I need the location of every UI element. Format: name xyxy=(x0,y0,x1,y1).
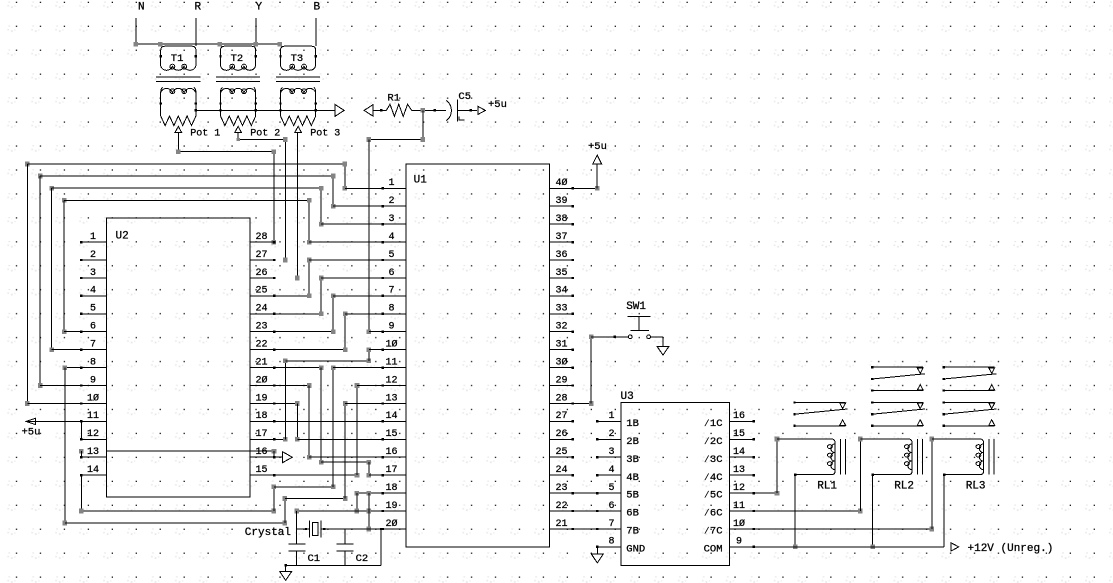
U3 pin 16 xyxy=(704,411,755,430)
U2 pin 28 xyxy=(250,232,275,243)
U2 pin 17 xyxy=(250,429,275,440)
power +5v to U2 pin 11 and 12 xyxy=(22,418,107,439)
wire U3 to relay RL3 xyxy=(730,437,980,532)
capacitor C2 xyxy=(336,529,368,565)
svg-text:31: 31 xyxy=(555,340,567,351)
U1 pin 2 xyxy=(382,196,406,207)
svg-text:1Ø: 1Ø xyxy=(733,518,745,530)
U3 pin 8 xyxy=(596,537,645,556)
ground at crystal xyxy=(280,564,381,580)
svg-text:17: 17 xyxy=(255,429,267,440)
svg-text:6B: 6B xyxy=(626,508,639,520)
svg-text:4: 4 xyxy=(608,465,614,476)
resistor R1 xyxy=(373,104,446,116)
U2 pin 26 xyxy=(250,268,275,279)
U2 pin 5 xyxy=(80,304,106,315)
svg-text:8: 8 xyxy=(388,304,394,315)
relay RL1 contact set lower xyxy=(794,401,848,427)
wire U2 pin 8 to U1 pin 13 (wrap) xyxy=(63,365,407,525)
wire U2 pin 19 to U1 pin 15 xyxy=(274,401,406,441)
U1 pin 11 xyxy=(382,357,406,368)
connector arrow R1 input xyxy=(364,105,373,117)
svg-text:35: 35 xyxy=(555,268,567,279)
svg-text:Crystal: Crystal xyxy=(245,527,291,539)
U1 pin 25 xyxy=(550,447,575,458)
svg-text:RL3: RL3 xyxy=(966,481,986,493)
U3 pin 9 xyxy=(704,537,755,556)
svg-text:6: 6 xyxy=(608,501,614,512)
svg-text:7: 7 xyxy=(90,340,96,351)
svg-text:5: 5 xyxy=(90,304,96,315)
svg-text:⁄1C: ⁄1C xyxy=(704,418,723,430)
U1 pin 4 xyxy=(382,232,406,243)
U1 pin 35 xyxy=(550,268,575,279)
transformer T2 xyxy=(216,46,260,125)
svg-text:6: 6 xyxy=(388,268,394,279)
svg-text:25: 25 xyxy=(555,447,567,458)
svg-text:12: 12 xyxy=(733,483,745,494)
U2 pin 20 xyxy=(250,374,275,386)
U3 pin 4 xyxy=(596,465,639,484)
svg-text:37: 37 xyxy=(555,232,567,243)
svg-text:Y: Y xyxy=(256,2,263,14)
svg-text:T3: T3 xyxy=(291,53,304,65)
svg-text:15: 15 xyxy=(255,465,267,476)
U1 pin 24 xyxy=(550,465,575,476)
wire U1 pin 19 to crystal xyxy=(294,493,406,531)
U2 pin 25 xyxy=(250,286,275,297)
U3 pin 2 xyxy=(596,429,639,448)
svg-text:23: 23 xyxy=(255,322,267,333)
svg-text:T1: T1 xyxy=(171,53,184,65)
svg-text:18: 18 xyxy=(385,483,397,494)
U1 pin 9 xyxy=(382,322,406,333)
svg-text:16: 16 xyxy=(733,411,745,422)
svg-text:+5u: +5u xyxy=(22,427,41,439)
svg-text:19: 19 xyxy=(255,393,267,404)
U1 pin 18 xyxy=(382,483,406,494)
U2 pin 19 xyxy=(250,393,275,404)
wire primary common rail xyxy=(134,42,283,47)
capacitor C5 xyxy=(446,100,477,122)
svg-text:27: 27 xyxy=(555,411,567,422)
Pot 1 wiper arrow xyxy=(175,126,182,132)
U1 pin 38 xyxy=(550,214,575,225)
U3 pin 1 xyxy=(596,411,639,430)
U1 pin 1 xyxy=(382,178,406,189)
svg-text:5B: 5B xyxy=(626,490,639,502)
wire R1 node to U1 pin 9 xyxy=(367,108,426,334)
svg-text:11: 11 xyxy=(87,411,99,422)
relay RL3 coil xyxy=(966,439,994,493)
svg-text:24: 24 xyxy=(555,465,567,476)
wire U2 pin 17 to U1 pin 10 xyxy=(274,347,406,441)
U2 pin 14 xyxy=(80,465,106,476)
U2 pin 9 xyxy=(80,375,106,386)
svg-text:36: 36 xyxy=(555,250,567,261)
U2 pin 4 xyxy=(80,286,106,297)
U1 pin 29 xyxy=(550,375,575,386)
IC U3 body xyxy=(621,403,730,566)
U3 pin 11 xyxy=(704,501,755,520)
svg-text:RL1: RL1 xyxy=(817,481,837,493)
wire U2 pin 21 to U1 pin 17 xyxy=(274,365,406,477)
svg-text:1: 1 xyxy=(388,178,394,189)
U1 pin 36 xyxy=(550,250,575,261)
svg-text:RL2: RL2 xyxy=(894,481,914,493)
svg-text:C2: C2 xyxy=(356,553,369,565)
Pot 2 wiper arrow xyxy=(235,126,242,132)
U3 pin 10 xyxy=(704,518,755,538)
svg-text:2Ø: 2Ø xyxy=(255,374,267,386)
U2 pin 13 xyxy=(80,447,106,458)
node Y wire xyxy=(255,18,257,46)
U3 pin 7 xyxy=(596,519,639,538)
U2 pin 3 xyxy=(80,268,106,279)
svg-text:24: 24 xyxy=(255,304,267,315)
U1 pin 30 xyxy=(550,356,575,368)
switch SW1 xyxy=(626,301,651,339)
svg-text:28: 28 xyxy=(255,232,267,243)
wire relay RL2 to +12V rail xyxy=(870,474,908,550)
svg-text:Pot 1: Pot 1 xyxy=(190,128,220,139)
U2 pin 8 xyxy=(80,357,106,368)
svg-text:19: 19 xyxy=(385,501,397,512)
svg-text:15: 15 xyxy=(385,429,397,440)
U1 pin 10 xyxy=(382,339,406,351)
svg-text:Pot 2: Pot 2 xyxy=(250,128,280,139)
svg-text:26: 26 xyxy=(255,268,267,279)
U1 pin 34 xyxy=(550,286,575,297)
U3 pin 3 xyxy=(596,447,639,466)
svg-text:11: 11 xyxy=(385,357,397,368)
U2 pin 24 xyxy=(250,304,275,315)
ground at U3 pin 8 xyxy=(591,547,603,563)
U1 pin 37 xyxy=(550,232,575,243)
svg-text:8: 8 xyxy=(608,537,614,548)
U3 pin 6 xyxy=(596,501,639,520)
U1 pin 7 xyxy=(382,286,406,297)
U1 pin 14 xyxy=(382,411,406,422)
U2 pin 18 xyxy=(250,411,275,422)
U1 pin 22 xyxy=(550,501,621,512)
U2 pin 27 xyxy=(250,250,275,261)
wire U3 to relay RL1 xyxy=(730,437,832,496)
svg-text:C5: C5 xyxy=(458,91,471,103)
U3 pin 13 xyxy=(704,465,755,484)
wire +12V rail xyxy=(730,546,945,548)
node N wire xyxy=(135,18,137,44)
relay RL2 contact set lower xyxy=(871,401,925,427)
wire U2 pin 22 to U1 pin 8 xyxy=(274,312,406,353)
wire U2 pin 23 to U1 pin 7 xyxy=(274,294,406,334)
U1 pin 27 xyxy=(550,411,575,422)
svg-text:34: 34 xyxy=(555,286,567,297)
U2 pin 11 xyxy=(80,411,106,422)
svg-text:⁄4C: ⁄4C xyxy=(704,472,723,484)
wire U2 pin 15 to U1 pin 12 xyxy=(274,383,406,477)
wire P2 line to U1 pin 2 and U2 pin 9 xyxy=(38,174,406,388)
ground at SW1 xyxy=(651,337,669,355)
svg-text:27: 27 xyxy=(255,250,267,261)
U1 pin 23 xyxy=(550,483,621,494)
wire P4 line to U1 pin 4 and U2 pin 6 xyxy=(62,198,406,334)
svg-text:3: 3 xyxy=(90,268,96,279)
svg-text:R: R xyxy=(195,2,202,14)
U1 pin 31 xyxy=(550,340,575,351)
U1 pin 15 xyxy=(382,429,406,440)
wire P1 line to U1 pin 1 and U2 pin 10 xyxy=(25,162,406,406)
svg-text:14: 14 xyxy=(87,465,99,476)
wire U1 pin 28 to SW1 xyxy=(589,335,628,406)
svg-text:3B: 3B xyxy=(626,454,639,466)
wire Pot2 wiper to U2 pin 27 xyxy=(236,133,287,263)
svg-text:5: 5 xyxy=(608,483,614,494)
svg-text:8: 8 xyxy=(90,357,96,368)
U1 pin 19 xyxy=(382,501,406,512)
svg-text:Pot 3: Pot 3 xyxy=(310,128,340,139)
U1 pin 16 xyxy=(382,447,406,458)
svg-text:38: 38 xyxy=(555,214,567,225)
svg-text:25: 25 xyxy=(255,286,267,297)
svg-text:3Ø: 3Ø xyxy=(555,356,567,368)
svg-text:⁄3C: ⁄3C xyxy=(704,454,723,466)
Pot 3 wiper arrow xyxy=(295,126,302,132)
wire U2 pin 18 to U1 pin 14 xyxy=(274,420,406,422)
U3 pin 14 xyxy=(704,447,755,466)
svg-text:9: 9 xyxy=(90,375,96,386)
svg-text:7: 7 xyxy=(608,519,614,530)
U2 pin 12 xyxy=(80,429,106,440)
svg-text:4Ø: 4Ø xyxy=(555,177,567,189)
svg-text:7: 7 xyxy=(388,286,394,297)
U1 pin 12 xyxy=(382,375,406,386)
svg-text:13: 13 xyxy=(733,465,745,476)
svg-text:18: 18 xyxy=(255,411,267,422)
svg-text:2: 2 xyxy=(608,429,614,440)
svg-text:11: 11 xyxy=(733,501,745,512)
svg-text:GND: GND xyxy=(626,544,645,556)
svg-text:22: 22 xyxy=(555,501,567,512)
wire U3 to relay RL2 xyxy=(730,437,909,514)
svg-text:1Ø: 1Ø xyxy=(87,392,99,404)
svg-text:13: 13 xyxy=(87,447,99,458)
wire relay RL1 to +12V rail xyxy=(793,474,831,550)
U2 pin 2 xyxy=(80,250,106,261)
relay RL3 contact set upper xyxy=(943,366,997,392)
svg-text:21: 21 xyxy=(255,357,267,368)
U2 pin 7 xyxy=(80,340,106,351)
U1 pin 5 xyxy=(382,250,406,261)
svg-text:C1: C1 xyxy=(308,553,321,565)
svg-text:⁄2C: ⁄2C xyxy=(704,436,723,448)
relay RL1 coil xyxy=(817,439,845,493)
wire Pot1 wiper to U2 pin 28 xyxy=(176,133,276,245)
svg-text:2Ø: 2Ø xyxy=(385,518,397,530)
relay RL3 contact set lower xyxy=(943,401,997,427)
relay RL2 contact set upper xyxy=(871,366,925,392)
svg-text:16: 16 xyxy=(385,447,397,458)
svg-text:6: 6 xyxy=(90,322,96,333)
transformer T1 xyxy=(156,46,200,125)
wire U2 pin 20 to U1 pin 16 xyxy=(274,383,406,459)
U1 pin 6 xyxy=(382,268,406,279)
U2 pin 23 xyxy=(250,322,275,333)
svg-text:T2: T2 xyxy=(231,53,244,65)
svg-text:29: 29 xyxy=(555,375,567,386)
wire U2 pin 24 to U1 pin 6 xyxy=(274,276,406,316)
svg-text:4: 4 xyxy=(388,232,394,243)
svg-text:13: 13 xyxy=(385,393,397,404)
U1 pin 40 xyxy=(550,177,598,189)
svg-text:21: 21 xyxy=(555,519,567,530)
U1 pin 33 xyxy=(550,304,575,315)
svg-text:5: 5 xyxy=(388,250,394,261)
svg-text:16: 16 xyxy=(255,447,267,458)
wire relay RL3 to +12V rail xyxy=(943,474,980,547)
svg-text:U3: U3 xyxy=(621,391,634,403)
crystal Y1 xyxy=(245,521,321,540)
transformer T3 xyxy=(276,46,320,125)
svg-text:2B: 2B xyxy=(626,436,639,448)
connector arrow secondary rail xyxy=(335,105,344,117)
svg-text:1: 1 xyxy=(608,411,614,422)
wire U2 pin 13 jog xyxy=(79,449,106,457)
U1 pin 39 xyxy=(550,196,575,207)
power +5v at U1 pin 40 xyxy=(588,141,607,191)
svg-text:+5u: +5u xyxy=(588,141,607,153)
U2 pin 21 xyxy=(250,357,275,368)
U1 pin 3 xyxy=(382,214,406,225)
svg-text:2: 2 xyxy=(388,196,394,207)
U1 pin 32 xyxy=(550,322,575,333)
svg-text:26: 26 xyxy=(555,429,567,440)
svg-text:23: 23 xyxy=(555,483,567,494)
svg-text:⁄5C: ⁄5C xyxy=(704,490,723,502)
svg-text:7B: 7B xyxy=(626,526,639,538)
svg-text:2: 2 xyxy=(90,250,96,261)
svg-text:COM: COM xyxy=(704,544,723,556)
U1 pin 20 xyxy=(382,518,406,530)
wire Pot3 wiper to U2 pin 26 xyxy=(295,133,300,281)
svg-text:3: 3 xyxy=(608,447,614,458)
U2 pin 22 xyxy=(250,340,275,351)
svg-text:4: 4 xyxy=(90,286,96,297)
U2 pin 6 xyxy=(80,322,106,333)
svg-text:12: 12 xyxy=(385,375,397,386)
U2 pin 10 xyxy=(80,392,106,404)
svg-text:⁄7C: ⁄7C xyxy=(704,526,723,538)
U2 pin 1 xyxy=(80,232,106,243)
connector arrow to +5v xyxy=(478,106,486,114)
wire P3 line to U1 pin 3 and U2 pin 7 xyxy=(49,186,406,352)
svg-text:1: 1 xyxy=(90,232,96,243)
svg-text:1B: 1B xyxy=(626,418,639,430)
node R wire xyxy=(195,18,197,46)
capacitor C1 xyxy=(288,544,320,565)
svg-text:3: 3 xyxy=(388,214,394,225)
U1 pin 13 xyxy=(382,393,406,404)
svg-text:28: 28 xyxy=(555,393,567,404)
U3 pin 5 xyxy=(596,483,639,502)
U1 pin 8 xyxy=(382,304,406,315)
wire U2 pin 16 to connector arrow xyxy=(106,449,292,463)
U3 pin 12 xyxy=(704,483,755,502)
U2 pin 16 xyxy=(250,447,275,458)
IC U1 body xyxy=(406,164,550,547)
U3 pin 15 xyxy=(704,429,755,448)
wire secondary common rail xyxy=(195,109,336,111)
svg-text:12: 12 xyxy=(87,429,99,440)
svg-text:9: 9 xyxy=(388,322,394,333)
svg-text:⁄6C: ⁄6C xyxy=(704,508,723,520)
svg-text:R1: R1 xyxy=(387,93,400,105)
U1 pin 17 xyxy=(382,465,406,476)
wire U1 pin 18 to crystal xyxy=(355,491,406,514)
svg-text:B: B xyxy=(314,2,321,14)
relay RL2 coil xyxy=(894,439,922,493)
svg-text:SW1: SW1 xyxy=(626,301,646,313)
svg-text:17: 17 xyxy=(385,465,397,476)
wire crystal row to U1 pin 20 xyxy=(297,511,406,565)
U2 pin 15 xyxy=(250,465,275,476)
svg-text:N: N xyxy=(138,2,145,14)
wire U2 pin 25 to U1 pin 5 xyxy=(274,258,406,299)
svg-text:U2: U2 xyxy=(116,230,129,242)
wire U2 pin 14 to U1 pin 11 (wrap) xyxy=(79,365,406,513)
svg-text:22: 22 xyxy=(255,340,267,351)
svg-text:14: 14 xyxy=(733,447,745,458)
U1 pin 21 xyxy=(550,519,621,530)
svg-text:4B: 4B xyxy=(626,472,639,484)
U1 pin 26 xyxy=(550,429,575,440)
svg-text:15: 15 xyxy=(733,429,745,440)
svg-text:+5u: +5u xyxy=(488,99,507,111)
svg-text:U1: U1 xyxy=(414,175,428,187)
svg-text:1Ø: 1Ø xyxy=(385,339,397,351)
svg-text:39: 39 xyxy=(555,196,567,207)
U1 pin 28 xyxy=(550,393,592,404)
node B wire xyxy=(315,18,317,46)
svg-text:14: 14 xyxy=(385,411,397,422)
svg-text:33: 33 xyxy=(555,304,567,315)
svg-text:32: 32 xyxy=(555,322,567,333)
svg-text:+12V (Unreg.): +12V (Unreg.) xyxy=(968,543,1054,555)
connector arrow +12V xyxy=(951,543,1053,555)
IC U2 body xyxy=(106,218,250,497)
svg-text:9: 9 xyxy=(736,537,742,548)
